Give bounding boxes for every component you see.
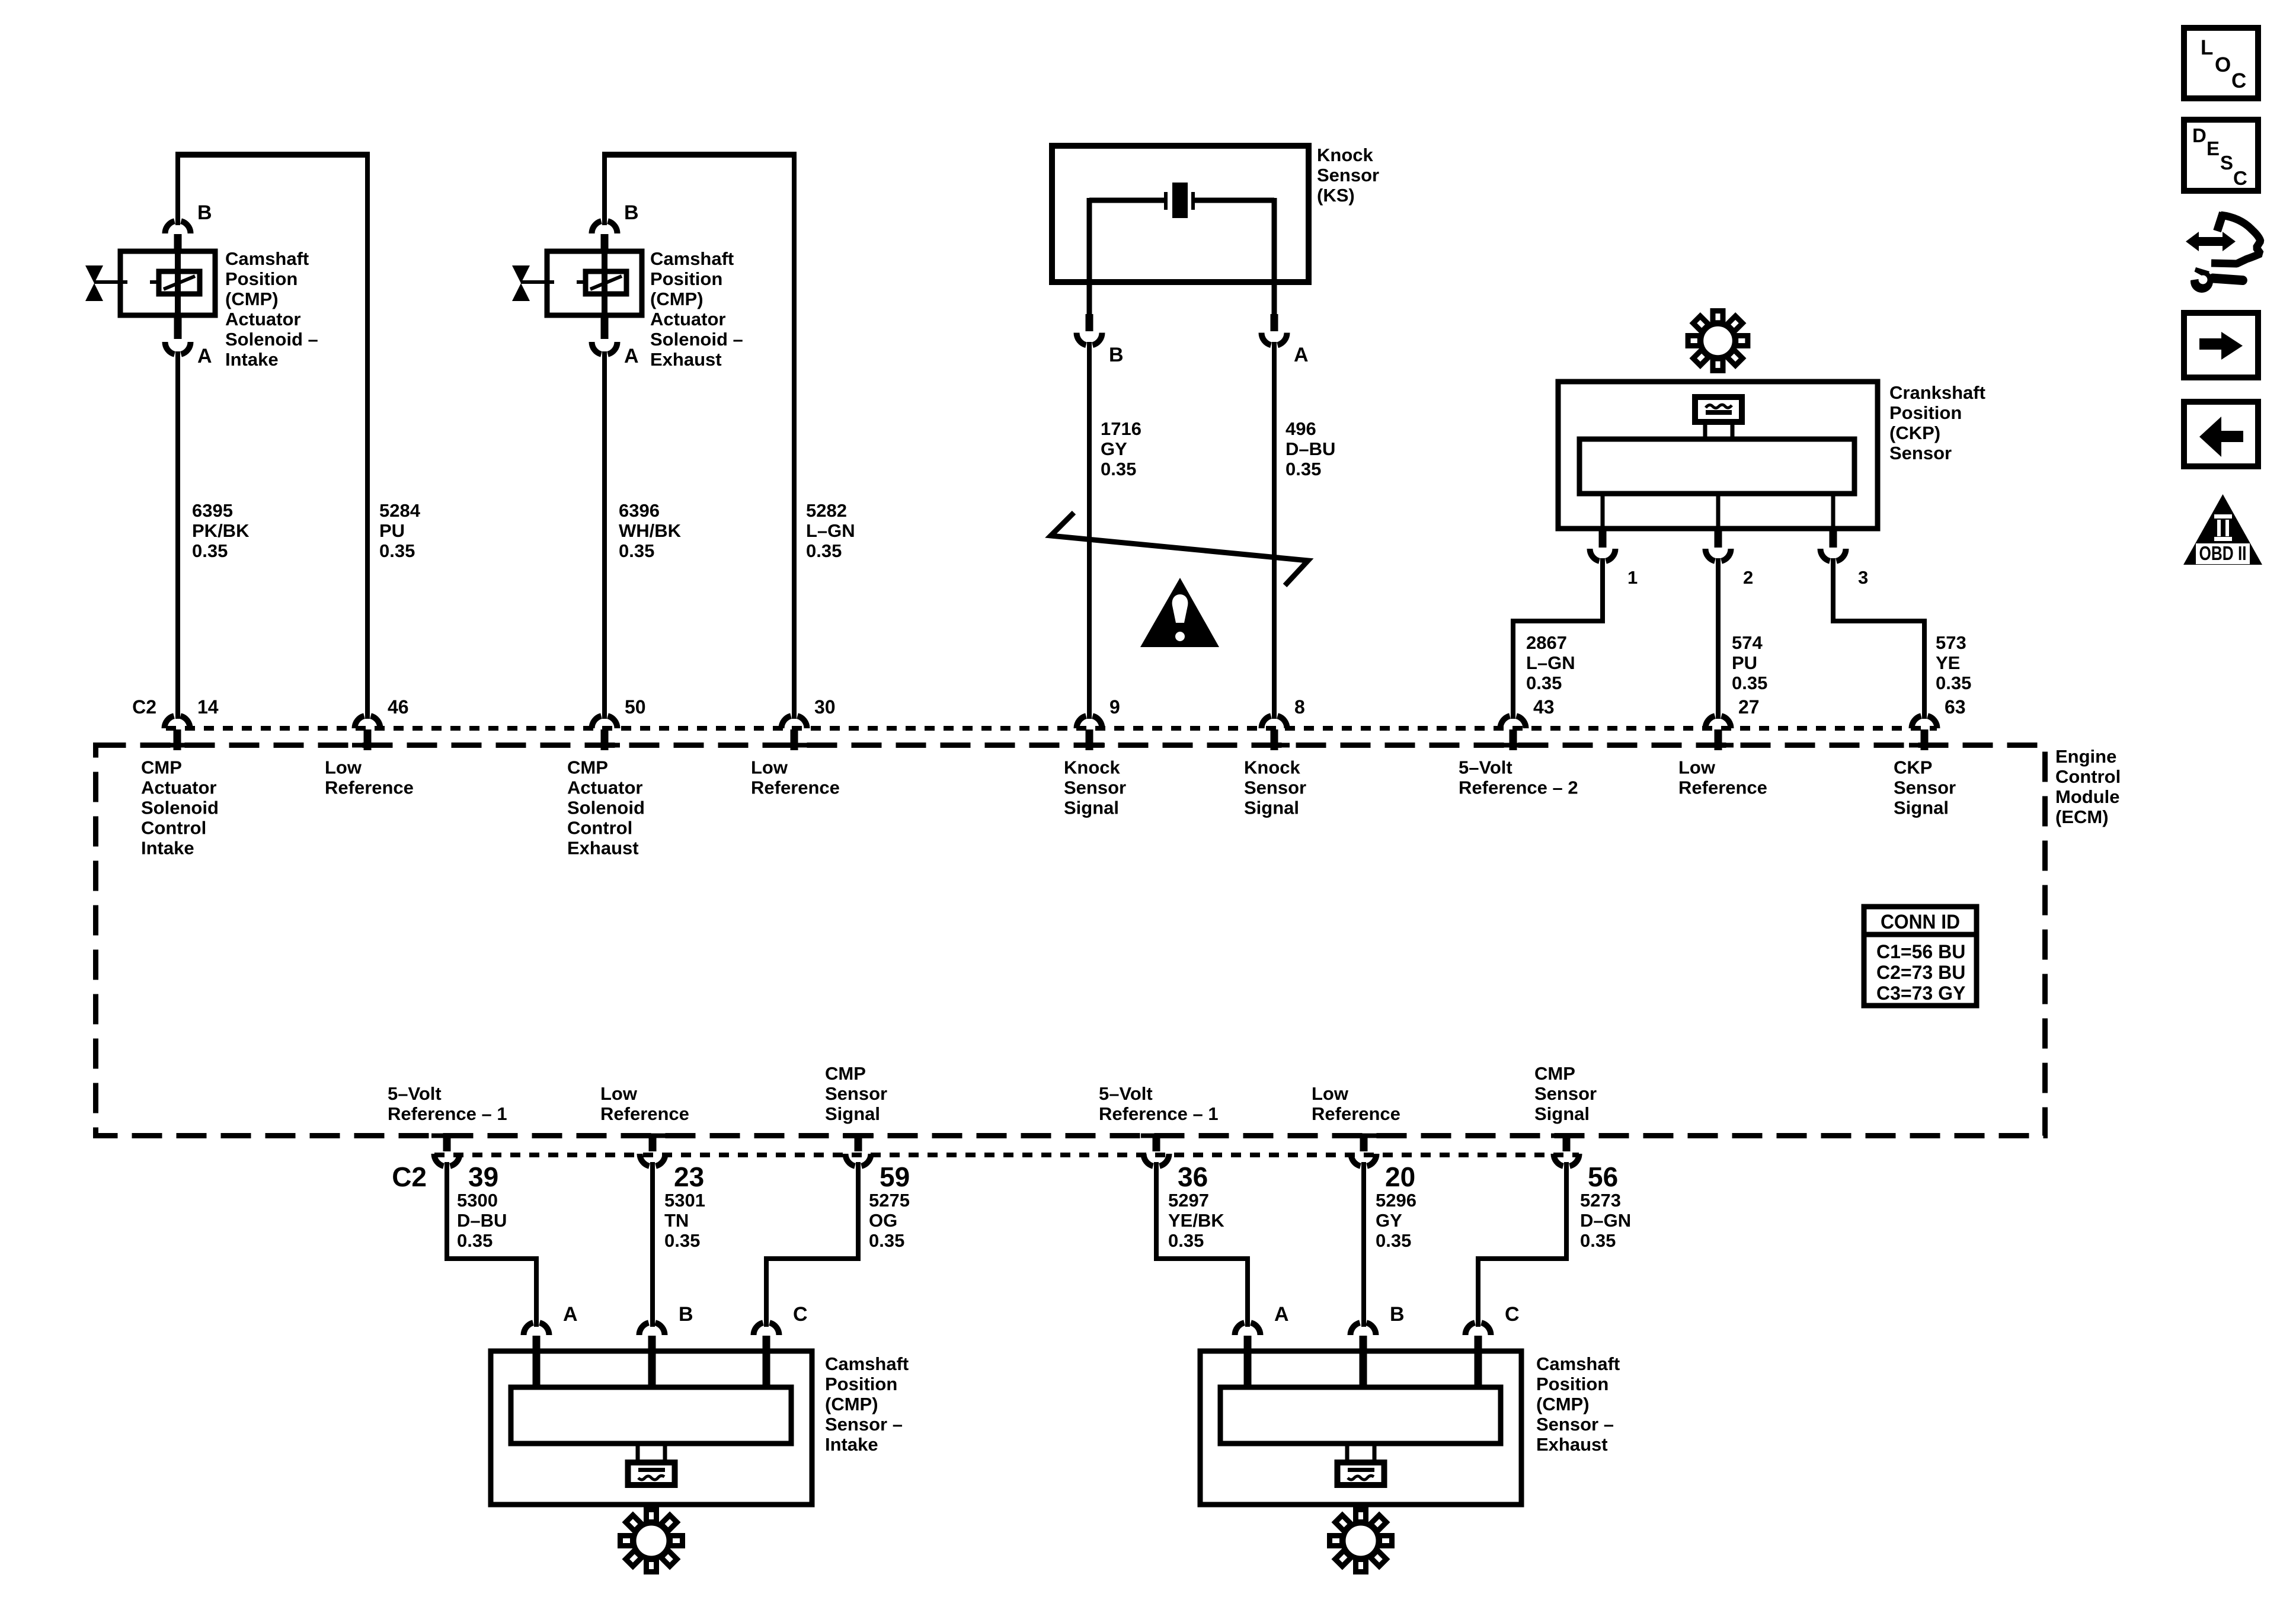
crankshaft position sensor box xyxy=(1558,382,1878,529)
svg-text:Module: Module xyxy=(2055,786,2120,807)
label xyxy=(225,248,318,370)
connector A (KS) xyxy=(1262,314,1309,366)
solenoid body xyxy=(547,251,642,315)
connector A xyxy=(165,316,212,367)
wire label 574 PU xyxy=(1732,632,1767,693)
svg-text:0.35: 0.35 xyxy=(1732,673,1767,693)
svg-text:CONN ID: CONN ID xyxy=(1881,911,1960,933)
svg-text:L–GN: L–GN xyxy=(1526,652,1575,673)
svg-text:PK/BK: PK/BK xyxy=(192,520,250,541)
dotted connector line bottom xyxy=(434,1153,1579,1157)
svg-text:46: 46 xyxy=(388,696,409,718)
ECM pin 9 xyxy=(1074,696,1120,750)
svg-text:A: A xyxy=(624,345,639,367)
svg-text:YE: YE xyxy=(1936,652,1960,673)
ECM label Low xyxy=(1678,757,1767,798)
wire CKP 1 to pin 43 xyxy=(1513,558,1603,719)
heater plug xyxy=(628,1444,675,1485)
ECM label CMP xyxy=(141,757,219,859)
svg-text:Reference – 2: Reference – 2 xyxy=(1459,777,1578,798)
svg-text:Sensor: Sensor xyxy=(1244,777,1306,798)
ECM label Low xyxy=(325,757,414,798)
svg-text:Reference – 1: Reference – 1 xyxy=(1099,1103,1219,1124)
svg-text:Exhaust: Exhaust xyxy=(650,349,722,370)
ECM label CMP xyxy=(1534,1063,1597,1124)
svg-text:B: B xyxy=(1109,344,1124,366)
label engine control module xyxy=(2055,746,2121,827)
wire label 5284 xyxy=(379,500,421,561)
svg-text:0.35: 0.35 xyxy=(379,540,415,561)
svg-text:23: 23 xyxy=(674,1161,704,1192)
knock sensor (KS) box xyxy=(1052,146,1309,282)
svg-text:Sensor: Sensor xyxy=(1894,777,1956,798)
svg-text:0.35: 0.35 xyxy=(1936,673,1971,693)
connector A xyxy=(591,316,638,367)
svg-text:Intake: Intake xyxy=(225,349,279,370)
svg-text:Position: Position xyxy=(225,268,298,289)
svg-text:Actuator: Actuator xyxy=(141,777,216,798)
ECM pin 27 xyxy=(1703,696,1760,750)
svg-text:Solenoid –: Solenoid – xyxy=(650,329,743,350)
connector label C2 (bottom) xyxy=(392,1161,427,1192)
svg-text:5282: 5282 xyxy=(806,500,847,521)
svg-text:C: C xyxy=(793,1303,808,1326)
svg-text:Position: Position xyxy=(1536,1374,1609,1394)
label camshaft position sensor xyxy=(825,1353,909,1455)
icon DESC xyxy=(2184,120,2258,191)
svg-text:496: 496 xyxy=(1285,418,1316,439)
svg-text:Low: Low xyxy=(751,757,788,778)
svg-text:Low: Low xyxy=(1678,757,1716,778)
CKP inner element xyxy=(1579,439,1854,494)
svg-text:S: S xyxy=(2220,152,2233,174)
svg-text:2: 2 xyxy=(1743,567,1753,588)
svg-text:5284: 5284 xyxy=(379,500,421,521)
ECM label Knock xyxy=(1064,757,1126,818)
svg-text:E: E xyxy=(2207,137,2220,159)
sensor inner element xyxy=(1220,1387,1501,1444)
svg-text:A: A xyxy=(1274,1303,1289,1326)
svg-text:14: 14 xyxy=(197,696,219,718)
dotted connector line top xyxy=(166,726,1937,731)
svg-text:574: 574 xyxy=(1732,632,1763,653)
svg-text:5–Volt: 5–Volt xyxy=(1099,1083,1153,1104)
svg-text:Intake: Intake xyxy=(825,1434,878,1455)
svg-text:Solenoid: Solenoid xyxy=(141,798,219,818)
CKP connector 1 xyxy=(1590,530,1638,588)
svg-text:Sensor: Sensor xyxy=(825,1083,887,1104)
gear icon xyxy=(621,1510,683,1572)
wire KS A to pin 8 xyxy=(1272,342,1277,719)
svg-text:L: L xyxy=(2201,36,2213,59)
pin line xyxy=(763,1351,770,1387)
svg-text:Knock: Knock xyxy=(1244,757,1301,778)
svg-text:30: 30 xyxy=(814,696,836,718)
svg-text:8: 8 xyxy=(1294,696,1305,718)
CKP plug element xyxy=(1695,397,1742,441)
connector A xyxy=(523,1303,577,1351)
svg-text:0.35: 0.35 xyxy=(1101,459,1136,479)
svg-text:CMP: CMP xyxy=(567,757,608,778)
svg-text:(CMP): (CMP) xyxy=(825,1394,878,1414)
wire pin 39 to CMP intake A xyxy=(447,1162,536,1327)
svg-text:Low: Low xyxy=(600,1083,638,1104)
heater plug xyxy=(1338,1444,1384,1485)
wire pin 56 to CMP exhaust C xyxy=(1478,1162,1566,1327)
svg-text:Sensor: Sensor xyxy=(1317,165,1379,185)
svg-text:0.35: 0.35 xyxy=(619,540,654,561)
svg-text:Camshaft: Camshaft xyxy=(825,1353,909,1374)
connector C xyxy=(1466,1303,1520,1351)
svg-text:A: A xyxy=(563,1303,578,1326)
ECM pin 14 xyxy=(162,696,219,750)
ECM label 5&#8211;Volt xyxy=(1459,757,1578,798)
sensor inner element xyxy=(511,1387,791,1444)
svg-text:TN: TN xyxy=(664,1210,689,1231)
svg-text:5–Volt: 5–Volt xyxy=(388,1083,442,1104)
engine control module (ECM) dashed box xyxy=(96,745,2045,1136)
ECM pin 50 xyxy=(589,696,646,750)
svg-text:Crankshaft: Crankshaft xyxy=(1889,382,1985,403)
svg-text:573: 573 xyxy=(1936,632,1966,653)
svg-text:Reference: Reference xyxy=(751,777,840,798)
svg-text:Engine: Engine xyxy=(2055,746,2116,767)
svg-text:(KS): (KS) xyxy=(1317,185,1355,206)
ECM label Low xyxy=(751,757,840,798)
svg-text:27: 27 xyxy=(1738,696,1760,718)
svg-text:A: A xyxy=(197,345,212,367)
wire label 6395 xyxy=(192,500,250,561)
svg-text:5296: 5296 xyxy=(1376,1190,1416,1211)
ECM label CKP xyxy=(1894,757,1956,818)
wire xyxy=(602,152,797,719)
dashed control line xyxy=(521,280,586,284)
svg-text:5301: 5301 xyxy=(664,1190,705,1211)
svg-text:Camshaft: Camshaft xyxy=(225,248,309,269)
ECM pin 46 xyxy=(352,696,409,750)
svg-text:Sensor: Sensor xyxy=(1889,443,1952,463)
svg-text:Reference: Reference xyxy=(1678,777,1767,798)
svg-text:Signal: Signal xyxy=(1244,798,1299,818)
svg-text:0.35: 0.35 xyxy=(1580,1230,1616,1251)
wire label 573 YE xyxy=(1936,632,1971,693)
sensor box xyxy=(491,1351,812,1505)
svg-text:YE/BK: YE/BK xyxy=(1168,1210,1224,1231)
svg-text:0.35: 0.35 xyxy=(664,1230,700,1251)
ECM label 5-Volt xyxy=(1099,1083,1219,1124)
svg-text:Signal: Signal xyxy=(825,1103,880,1124)
wire CKP 3 to pin 63 xyxy=(1833,558,1924,719)
svg-text:Actuator: Actuator xyxy=(650,309,725,329)
wire xyxy=(175,152,370,719)
svg-text:6396: 6396 xyxy=(619,500,660,521)
svg-text:0.35: 0.35 xyxy=(1168,1230,1204,1251)
svg-text:(CMP): (CMP) xyxy=(225,289,279,309)
connector B xyxy=(165,201,212,251)
svg-text:C: C xyxy=(1505,1303,1520,1326)
ECM pin 43 xyxy=(1498,696,1555,750)
svg-text:Sensor: Sensor xyxy=(1064,777,1126,798)
ECM pin 23 xyxy=(637,1134,704,1193)
svg-text:Reference – 1: Reference – 1 xyxy=(388,1103,507,1124)
wire label 5275 xyxy=(869,1190,910,1251)
svg-text:B: B xyxy=(624,201,639,224)
svg-text:L–GN: L–GN xyxy=(806,520,855,541)
wire label 5301 xyxy=(664,1190,705,1251)
connector B xyxy=(639,1303,693,1351)
label knock sensor xyxy=(1317,145,1379,206)
svg-text:C1=56 BU: C1=56 BU xyxy=(1876,941,1965,962)
svg-text:B: B xyxy=(1390,1303,1405,1326)
connector B (KS) xyxy=(1077,314,1124,366)
icon arrow right xyxy=(2184,313,2258,377)
svg-text:0.35: 0.35 xyxy=(1376,1230,1411,1251)
svg-text:5275: 5275 xyxy=(869,1190,910,1211)
svg-text:D–BU: D–BU xyxy=(1285,439,1335,459)
svg-text:0.35: 0.35 xyxy=(192,540,228,561)
pin line xyxy=(1360,1351,1367,1387)
wire label 5300 xyxy=(457,1190,507,1251)
svg-text:Control: Control xyxy=(567,818,632,838)
svg-text:Low: Low xyxy=(1312,1083,1349,1104)
sensor box xyxy=(1200,1351,1521,1505)
svg-text:Signal: Signal xyxy=(1064,798,1119,818)
svg-text:PU: PU xyxy=(379,520,405,541)
wire label 496 D-BU xyxy=(1285,418,1335,479)
shield / twisted pair symbol xyxy=(1051,513,1308,585)
svg-text:CMP: CMP xyxy=(825,1063,866,1084)
CKP pin 2 stub xyxy=(1716,494,1721,528)
ECM pin 8 xyxy=(1259,696,1305,750)
svg-text:PU: PU xyxy=(1732,652,1757,673)
pin line xyxy=(648,1351,656,1387)
svg-text:Exhaust: Exhaust xyxy=(567,838,639,859)
ECM label Knock xyxy=(1244,757,1306,818)
svg-text:0.35: 0.35 xyxy=(457,1230,493,1251)
svg-text:C2=73 BU: C2=73 BU xyxy=(1876,962,1965,983)
wire label 5282 xyxy=(806,500,855,561)
label xyxy=(650,248,743,370)
ECM pin 36 xyxy=(1141,1134,1208,1193)
wire label 6396 xyxy=(619,500,682,561)
svg-text:Solenoid –: Solenoid – xyxy=(225,329,318,350)
CKP connector 3 xyxy=(1821,530,1869,588)
CKP connector 2 xyxy=(1705,530,1753,588)
svg-text:CKP: CKP xyxy=(1894,757,1932,778)
svg-text:OG: OG xyxy=(869,1210,897,1231)
svg-text:56: 56 xyxy=(1588,1161,1618,1192)
ECM pin 39 xyxy=(431,1134,498,1193)
connector A xyxy=(1235,1303,1289,1351)
svg-text:Control: Control xyxy=(141,818,206,838)
label camshaft position sensor xyxy=(1536,1353,1620,1455)
solenoid body xyxy=(120,251,215,315)
ECM pin 56 xyxy=(1551,1134,1618,1193)
connector B xyxy=(1351,1303,1405,1351)
wire pin 20 to CMP exhaust B xyxy=(1361,1162,1366,1327)
CKP pin 1 stub xyxy=(1601,494,1605,528)
connector label C2 (top) xyxy=(132,696,156,718)
ECM label CMP xyxy=(567,757,645,859)
svg-text:(CKP): (CKP) xyxy=(1889,423,1940,443)
svg-text:Sensor: Sensor xyxy=(1534,1083,1597,1104)
svg-text:Actuator: Actuator xyxy=(225,309,300,329)
wire pin 23 to CMP intake B xyxy=(650,1162,655,1327)
ECM label Low xyxy=(1312,1083,1400,1124)
CKP pin 3 stub xyxy=(1831,494,1835,528)
svg-text:43: 43 xyxy=(1533,696,1555,718)
svg-text:Signal: Signal xyxy=(1894,798,1949,818)
svg-text:C: C xyxy=(2231,69,2246,92)
svg-text:Position: Position xyxy=(1889,402,1962,423)
svg-text:C2: C2 xyxy=(392,1161,427,1192)
svg-text:(CMP): (CMP) xyxy=(650,289,703,309)
svg-text:CMP: CMP xyxy=(1534,1063,1575,1084)
wire label 5297 xyxy=(1168,1190,1224,1251)
icon OBD II triangle xyxy=(2183,494,2262,565)
svg-text:Sensor –: Sensor – xyxy=(825,1414,903,1435)
svg-text:1716: 1716 xyxy=(1101,418,1141,439)
svg-text:59: 59 xyxy=(880,1161,910,1192)
svg-text:Low: Low xyxy=(325,757,362,778)
svg-text:D: D xyxy=(2192,124,2207,146)
wire label 2867 L-GN xyxy=(1526,632,1575,693)
connector B xyxy=(591,201,638,251)
piezo element xyxy=(1089,183,1274,314)
svg-text:Position: Position xyxy=(825,1374,897,1394)
svg-text:5–Volt: 5–Volt xyxy=(1459,757,1512,778)
svg-text:0.35: 0.35 xyxy=(1285,459,1321,479)
ECM pin 63 xyxy=(1909,696,1966,750)
svg-text:CMP: CMP xyxy=(141,757,182,778)
ECM label Low xyxy=(600,1083,689,1124)
pin line xyxy=(533,1351,541,1387)
svg-text:Reference: Reference xyxy=(600,1103,689,1124)
wire CKP 2 to pin 27 xyxy=(1716,558,1721,719)
icon adjust/repair (arrows and wrench) xyxy=(2186,213,2260,293)
pin line xyxy=(1244,1351,1252,1387)
warning triangle xyxy=(1140,578,1219,647)
svg-text:GY: GY xyxy=(1101,439,1127,459)
svg-text:(ECM): (ECM) xyxy=(2055,806,2109,827)
wire KS B to pin 9 xyxy=(1087,342,1092,719)
svg-text:20: 20 xyxy=(1385,1161,1415,1192)
svg-text:Camshaft: Camshaft xyxy=(650,248,734,269)
wire xyxy=(602,351,607,719)
svg-text:39: 39 xyxy=(468,1161,498,1192)
svg-text:WH/BK: WH/BK xyxy=(619,520,682,541)
svg-text:Control: Control xyxy=(2055,766,2121,787)
valve symbol xyxy=(85,265,103,301)
svg-text:5297: 5297 xyxy=(1168,1190,1209,1211)
svg-text:D–GN: D–GN xyxy=(1580,1210,1631,1231)
svg-text:Signal: Signal xyxy=(1534,1103,1590,1124)
svg-text:Exhaust: Exhaust xyxy=(1536,1434,1608,1455)
svg-text:63: 63 xyxy=(1945,696,1966,718)
svg-text:B: B xyxy=(197,201,212,224)
svg-text:(CMP): (CMP) xyxy=(1536,1394,1590,1414)
wire label 5296 xyxy=(1376,1190,1416,1251)
pin line xyxy=(1475,1351,1482,1387)
wire pin 36 to CMP exhaust A xyxy=(1156,1162,1248,1327)
svg-text:6395: 6395 xyxy=(192,500,233,521)
svg-text:36: 36 xyxy=(1178,1161,1208,1192)
svg-text:5300: 5300 xyxy=(457,1190,498,1211)
svg-text:9: 9 xyxy=(1109,696,1120,718)
ECM pin 20 xyxy=(1348,1134,1415,1193)
svg-text:C: C xyxy=(2233,167,2247,189)
svg-text:C2: C2 xyxy=(132,696,156,718)
ECM pin 30 xyxy=(779,696,836,750)
label crankshaft position sensor xyxy=(1889,382,1985,463)
ECM label 5-Volt xyxy=(388,1083,507,1124)
icon LOC xyxy=(2184,28,2258,98)
ECM pin 59 xyxy=(843,1134,910,1193)
wire label 5273 xyxy=(1580,1190,1631,1251)
ECM label CMP xyxy=(825,1063,887,1124)
svg-text:Reference: Reference xyxy=(325,777,414,798)
wire pin 59 to CMP intake C xyxy=(766,1162,858,1327)
svg-text:Knock: Knock xyxy=(1317,145,1374,165)
svg-text:Reference: Reference xyxy=(1312,1103,1400,1124)
CKP gear icon xyxy=(1688,311,1748,371)
svg-text:5273: 5273 xyxy=(1580,1190,1621,1211)
svg-text:Sensor –: Sensor – xyxy=(1536,1414,1614,1435)
svg-text:B: B xyxy=(679,1303,693,1326)
svg-text:3: 3 xyxy=(1858,567,1868,588)
svg-text:A: A xyxy=(1294,344,1309,366)
svg-text:Intake: Intake xyxy=(141,838,194,859)
svg-text:O: O xyxy=(2215,53,2231,76)
connector C xyxy=(754,1303,808,1351)
svg-text:0.35: 0.35 xyxy=(806,540,842,561)
svg-text:Camshaft: Camshaft xyxy=(1536,1353,1620,1374)
valve symbol xyxy=(512,265,530,301)
dashed control line xyxy=(94,280,159,284)
icon arrow left xyxy=(2184,402,2258,466)
svg-text:1: 1 xyxy=(1627,567,1638,588)
svg-text:GY: GY xyxy=(1376,1210,1402,1231)
svg-text:Knock: Knock xyxy=(1064,757,1121,778)
svg-text:Position: Position xyxy=(650,268,722,289)
svg-text:OBD II: OBD II xyxy=(2199,542,2247,564)
svg-text:2867: 2867 xyxy=(1526,632,1567,653)
gear icon xyxy=(1330,1510,1392,1572)
wire label 1716 GY xyxy=(1101,418,1141,479)
wire xyxy=(175,351,180,719)
svg-text:C3=73 GY: C3=73 GY xyxy=(1876,982,1965,1004)
svg-text:0.35: 0.35 xyxy=(1526,673,1562,693)
svg-text:50: 50 xyxy=(625,696,646,718)
svg-text:D–BU: D–BU xyxy=(457,1210,507,1231)
svg-text:Actuator: Actuator xyxy=(567,777,642,798)
svg-text:0.35: 0.35 xyxy=(869,1230,904,1251)
CONN ID table xyxy=(1864,907,1977,1006)
svg-text:Solenoid: Solenoid xyxy=(567,798,645,818)
